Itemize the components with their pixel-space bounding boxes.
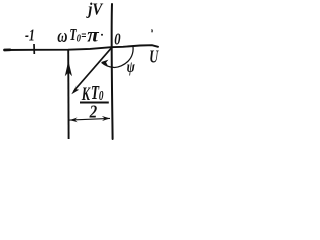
right dimension arrowhead <box>102 116 110 121</box>
left dimension arrowhead <box>69 117 78 122</box>
up arrowhead on vector <box>65 61 72 76</box>
svg-text:0: 0 <box>114 29 121 48</box>
angle arc psi <box>102 46 133 68</box>
arrowhead of arc <box>101 60 109 66</box>
vector line at U = -KT0/2 (vertical with up arrow) <box>67 50 69 139</box>
U axis (horizontal, slightly tilted) <box>5 45 159 50</box>
small dot after pi <box>101 34 103 36</box>
tick at -1 <box>33 44 35 54</box>
dimension line with arrows <box>70 118 111 120</box>
svg-text:U: U <box>149 47 159 67</box>
svg-text:ω: ω <box>57 26 67 47</box>
U axis left end blob <box>5 48 11 51</box>
svg-text:ψ: ψ <box>127 59 135 76</box>
small fleck above U <box>151 30 154 33</box>
svg-text:2: 2 <box>89 101 97 121</box>
diagonal line from origin <box>74 48 112 92</box>
svg-text:jV: jV <box>86 0 104 19</box>
arrowhead of diagonal <box>71 85 79 94</box>
svg-text:=: = <box>81 29 86 44</box>
svg-text:0: 0 <box>99 88 104 103</box>
fraction bar <box>80 102 109 104</box>
svg-text:π: π <box>87 24 100 46</box>
jV axis (vertical) <box>111 4 114 139</box>
svg-text:-1: -1 <box>25 26 35 45</box>
